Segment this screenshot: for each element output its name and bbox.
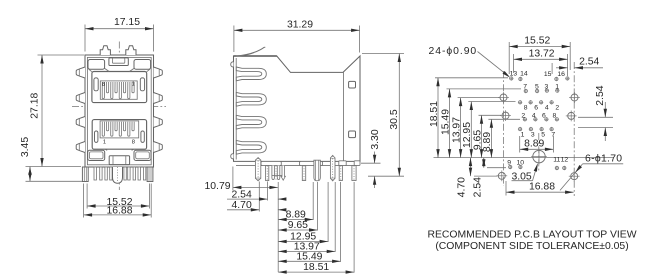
svg-text:15.52: 15.52 <box>524 36 550 47</box>
svg-text:1: 1 <box>555 84 559 91</box>
svg-text:2: 2 <box>555 104 559 111</box>
svg-text:1: 1 <box>132 82 135 88</box>
svg-text:2.54: 2.54 <box>579 57 599 68</box>
svg-text:10.79: 10.79 <box>205 181 231 192</box>
svg-text:18.51: 18.51 <box>303 262 329 273</box>
svg-text:30.5: 30.5 <box>389 109 400 129</box>
svg-text:24-ϕ0.90: 24-ϕ0.90 <box>429 46 478 57</box>
svg-text:16.88: 16.88 <box>106 205 132 216</box>
svg-text:4.70: 4.70 <box>232 200 252 211</box>
svg-text:27.18: 27.18 <box>30 92 41 118</box>
svg-text:2: 2 <box>521 113 525 120</box>
svg-text:15.49: 15.49 <box>296 251 322 262</box>
svg-text:17.15: 17.15 <box>114 17 140 28</box>
svg-text:(COMPONENT SIDE TOLERANCE±0.05: (COMPONENT SIDE TOLERANCE±0.05) <box>435 241 628 252</box>
svg-text:18.51: 18.51 <box>429 101 440 127</box>
svg-text:16: 16 <box>557 71 565 78</box>
svg-text:12: 12 <box>561 157 569 164</box>
svg-text:14: 14 <box>520 71 528 78</box>
svg-text:2.54: 2.54 <box>232 189 252 200</box>
svg-text:31.29: 31.29 <box>287 19 313 30</box>
svg-text:13.72: 13.72 <box>529 49 555 60</box>
svg-text:8.89: 8.89 <box>524 139 544 150</box>
svg-text:9: 9 <box>507 160 511 167</box>
svg-text:15: 15 <box>544 71 552 78</box>
svg-text:RECOMMENDED P.C.B LAYOUT TOP V: RECOMMENDED P.C.B LAYOUT TOP VIEW <box>427 229 636 240</box>
svg-text:8: 8 <box>132 140 135 146</box>
svg-text:16.88: 16.88 <box>529 182 555 193</box>
svg-text:8: 8 <box>524 104 528 111</box>
svg-text:13.97: 13.97 <box>451 117 462 143</box>
svg-text:6: 6 <box>534 104 538 111</box>
svg-text:8: 8 <box>553 113 557 120</box>
svg-text:9.65: 9.65 <box>288 220 308 231</box>
svg-text:3: 3 <box>545 84 549 91</box>
svg-text:8.89: 8.89 <box>286 210 306 221</box>
svg-text:4: 4 <box>532 113 536 120</box>
svg-text:15.49: 15.49 <box>440 109 451 135</box>
svg-text:2.54: 2.54 <box>595 85 606 105</box>
svg-text:5: 5 <box>535 84 539 91</box>
svg-text:10: 10 <box>517 160 525 167</box>
svg-text:8: 8 <box>102 82 105 88</box>
svg-text:2.54: 2.54 <box>473 177 484 197</box>
svg-text:4.70: 4.70 <box>457 177 468 197</box>
svg-text:6: 6 <box>542 113 546 120</box>
svg-text:3.45: 3.45 <box>20 137 31 157</box>
svg-text:3.30: 3.30 <box>370 129 381 149</box>
svg-text:4: 4 <box>545 104 549 111</box>
svg-text:7: 7 <box>523 84 527 91</box>
svg-text:6-ϕ1.70: 6-ϕ1.70 <box>585 153 622 164</box>
svg-text:11: 11 <box>553 157 560 164</box>
svg-text:8.89: 8.89 <box>482 132 493 152</box>
svg-text:1: 1 <box>103 140 106 146</box>
